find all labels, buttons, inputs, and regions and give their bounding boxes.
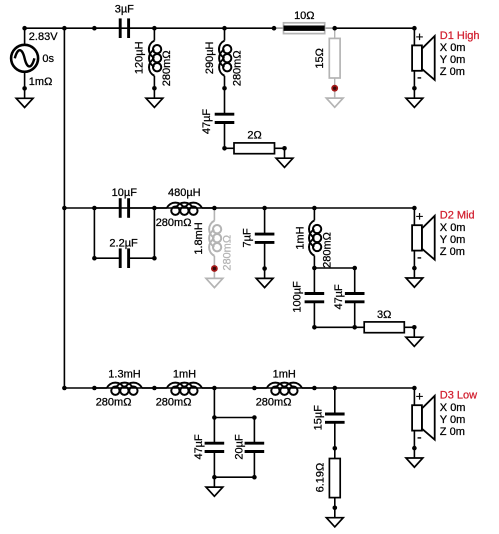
labels D3 Low X Y Z bbox=[440, 390, 477, 438]
svg-text:15µF: 15µF bbox=[313, 405, 325, 431]
inductor L 1mH (mid section) bbox=[309, 208, 321, 268]
label 3ohm bbox=[377, 309, 391, 321]
capacitor C 2.2uF bbox=[94, 248, 154, 268]
label 100uF bbox=[291, 281, 303, 313]
label 480uH bbox=[168, 187, 201, 199]
label 7uF bbox=[241, 228, 253, 247]
svg-text:290µH: 290µH bbox=[204, 41, 216, 74]
capacitor C 20uF bbox=[245, 418, 265, 478]
svg-text:Z 0m: Z 0m bbox=[440, 66, 465, 78]
label 1mH mid bbox=[294, 226, 306, 249]
speaker D2 bbox=[412, 208, 435, 268]
capacitor C 47uF (low section) bbox=[205, 418, 225, 478]
speaker D3 bbox=[412, 388, 435, 448]
wire top rail of 100uF/47uF bbox=[314, 267, 354, 269]
svg-text:100µF: 100µF bbox=[291, 281, 303, 313]
svg-text:280mΩ: 280mΩ bbox=[156, 217, 192, 229]
ground below R 6.19ohm bbox=[326, 508, 343, 527]
label 1.8mH bbox=[193, 222, 205, 254]
ground below L 1.8mH (disabled) bbox=[206, 269, 223, 288]
open-circuit red dot below R 15ohm bbox=[331, 85, 338, 92]
svg-text:6.19Ω: 6.19Ω bbox=[315, 463, 327, 493]
ground below 47uF/20uF bbox=[206, 477, 223, 496]
label 280mOhm of L 120uH bbox=[161, 50, 173, 86]
inductor L 120uH bbox=[149, 28, 161, 88]
speaker D1 bbox=[412, 28, 435, 88]
wire bottom rail of 100uF/47uF bbox=[314, 326, 354, 328]
label 280mOhm of L 1.8mH (gray) bbox=[221, 235, 233, 271]
svg-text:1.8mH: 1.8mH bbox=[193, 222, 205, 254]
inductor L 480uH bbox=[154, 203, 214, 215]
svg-text:15Ω: 15Ω bbox=[314, 48, 326, 68]
label 10uF bbox=[112, 187, 138, 199]
svg-text:280mΩ: 280mΩ bbox=[156, 397, 192, 409]
junction dots row 3 bbox=[62, 386, 417, 510]
svg-text:480µH: 480µH bbox=[168, 187, 201, 199]
svg-text:-: - bbox=[417, 69, 422, 85]
label 47uF mid bbox=[333, 284, 345, 310]
svg-text:280mΩ: 280mΩ bbox=[322, 232, 334, 268]
label 280mOhm of L 1mH low2 bbox=[256, 397, 292, 409]
label 47uF high bbox=[201, 109, 213, 135]
label 47uF low bbox=[193, 434, 205, 460]
ground below D3 bbox=[406, 448, 423, 467]
capacitor C 10uF bbox=[94, 198, 154, 218]
resistor R 3ohm bbox=[355, 322, 415, 333]
svg-text:-: - bbox=[417, 248, 422, 264]
voltage source V1 2.83V bbox=[11, 28, 38, 88]
svg-text:+: + bbox=[416, 29, 424, 44]
svg-text:Z 0m: Z 0m bbox=[440, 246, 465, 258]
label 15ohm bbox=[314, 48, 326, 68]
ground below L 120uH bbox=[146, 88, 163, 107]
svg-text:20µF: 20µF bbox=[234, 434, 246, 460]
label 15uF bbox=[313, 405, 325, 431]
inductor L 1mH (low section first) bbox=[154, 383, 214, 395]
wire right rail of parallel caps bbox=[153, 208, 155, 258]
label V1 2.83V bbox=[29, 31, 58, 43]
svg-text:1mΩ: 1mΩ bbox=[29, 76, 53, 88]
wire left rail of parallel caps bbox=[93, 208, 95, 258]
ground below R 15ohm (disabled) bbox=[326, 88, 343, 107]
wire bus (node IN down to low section) bbox=[63, 28, 65, 388]
wire bottom rail of 47uF/20uF bbox=[214, 476, 254, 478]
wire low rail (bus to D3) bbox=[64, 387, 414, 389]
resistor R 15ohm (open, disabled) bbox=[329, 28, 340, 88]
label V1 1m&#937; bbox=[29, 76, 53, 88]
label 1mH low1 bbox=[173, 369, 196, 381]
capacitor C 15uF bbox=[325, 388, 345, 448]
inductor L 1.3mH bbox=[94, 383, 154, 395]
label 1mH low2 bbox=[273, 369, 296, 381]
label 280mOhm of L 290uH bbox=[231, 50, 243, 86]
svg-text:Y 0m: Y 0m bbox=[440, 414, 465, 426]
labels D1 High X Y Z bbox=[440, 30, 480, 78]
svg-text:Z 0m: Z 0m bbox=[440, 426, 465, 438]
svg-text:10Ω: 10Ω bbox=[294, 10, 314, 22]
capacitor C 3uF bbox=[94, 18, 154, 38]
labels D2 Mid X Y Z bbox=[440, 210, 475, 258]
svg-text:1.3mH: 1.3mH bbox=[108, 369, 140, 381]
ground below D2 bbox=[406, 268, 423, 287]
label 280mOhm of L 1mH mid bbox=[322, 232, 334, 268]
label 280mOhm of L 480uH bbox=[156, 217, 192, 229]
svg-text:47µF: 47µF bbox=[193, 434, 205, 460]
wire top rail (node IN to D1) bbox=[25, 27, 415, 29]
ground below V1 bbox=[16, 88, 33, 107]
label 120uH bbox=[134, 41, 146, 74]
capacitor C 47uF (high section) bbox=[215, 88, 235, 148]
label 290uH bbox=[204, 41, 216, 74]
wire top rail of 47uF/20uF bbox=[214, 417, 254, 419]
svg-text:7µF: 7µF bbox=[241, 228, 253, 247]
label 3uF bbox=[115, 4, 134, 16]
svg-text:+: + bbox=[416, 389, 424, 404]
ground right of R 2ohm bbox=[276, 148, 293, 167]
svg-text:1mH: 1mH bbox=[294, 226, 306, 249]
resistor R 10ohm (shorted) bbox=[274, 23, 335, 34]
svg-text:47µF: 47µF bbox=[333, 284, 345, 310]
wire mid rail (bus to D2) bbox=[64, 207, 414, 209]
label 1.3mH bbox=[108, 369, 140, 381]
wire junction down to 47uF/20uF bbox=[213, 388, 215, 418]
open-circuit red dot below L 1.8mH bbox=[211, 265, 218, 272]
svg-text:280mΩ: 280mΩ bbox=[96, 397, 132, 409]
svg-text:Y 0m: Y 0m bbox=[440, 234, 465, 246]
svg-text:47µF: 47µF bbox=[201, 109, 213, 135]
ground right of R 3ohm bbox=[406, 327, 423, 346]
svg-text:D1 High: D1 High bbox=[440, 30, 480, 42]
svg-text:X 0m: X 0m bbox=[440, 402, 466, 414]
label 6.19ohm bbox=[315, 463, 327, 493]
ground below D1 bbox=[406, 88, 423, 107]
svg-text:-: - bbox=[417, 428, 422, 444]
label 280mOhm of L 1.3mH bbox=[96, 397, 132, 409]
capacitor C 7uF bbox=[255, 208, 275, 269]
label 2ohm bbox=[247, 130, 261, 142]
svg-text:10µF: 10µF bbox=[112, 187, 138, 199]
svg-text:Y 0m: Y 0m bbox=[440, 54, 465, 66]
resistor R 2ohm bbox=[225, 143, 285, 154]
svg-text:1mH: 1mH bbox=[173, 369, 196, 381]
svg-text:2Ω: 2Ω bbox=[247, 130, 261, 142]
capacitor C 47uF (mid section) bbox=[345, 268, 365, 327]
svg-text:3µF: 3µF bbox=[115, 4, 134, 16]
inductor L 1.8mH (open, disabled) bbox=[209, 208, 221, 269]
label 10ohm bbox=[294, 10, 314, 22]
svg-text:D3 Low: D3 Low bbox=[440, 390, 477, 402]
svg-text:280mΩ: 280mΩ bbox=[161, 50, 173, 86]
svg-text:X 0m: X 0m bbox=[440, 222, 466, 234]
inductor L 290uH bbox=[219, 28, 231, 88]
ground below C 7uF bbox=[256, 269, 273, 288]
svg-text:120µH: 120µH bbox=[134, 41, 146, 74]
svg-text:280mΩ: 280mΩ bbox=[231, 50, 243, 86]
svg-text:3Ω: 3Ω bbox=[377, 309, 391, 321]
svg-text:0s: 0s bbox=[42, 53, 54, 65]
svg-text:X 0m: X 0m bbox=[440, 42, 466, 54]
label 280mOhm of L 1mH low1 bbox=[156, 397, 192, 409]
capacitor C 100uF bbox=[305, 268, 325, 327]
svg-text:+: + bbox=[416, 209, 424, 224]
svg-text:1mH: 1mH bbox=[273, 369, 296, 381]
label 20uF bbox=[234, 434, 246, 460]
svg-text:2.83V: 2.83V bbox=[29, 31, 58, 43]
label 2.2uF bbox=[109, 237, 138, 249]
inductor L 1mH (low section second) bbox=[254, 383, 314, 395]
svg-text:280mΩ: 280mΩ bbox=[221, 235, 233, 271]
label V1 0s bbox=[42, 53, 54, 65]
resistor R 6.19ohm bbox=[329, 448, 340, 508]
junction dots row 1 bbox=[22, 26, 416, 151]
junction dots row 2 bbox=[62, 206, 417, 330]
svg-text:2.2µF: 2.2µF bbox=[109, 237, 138, 249]
svg-text:280mΩ: 280mΩ bbox=[256, 397, 292, 409]
svg-text:D2 Mid: D2 Mid bbox=[440, 210, 475, 222]
